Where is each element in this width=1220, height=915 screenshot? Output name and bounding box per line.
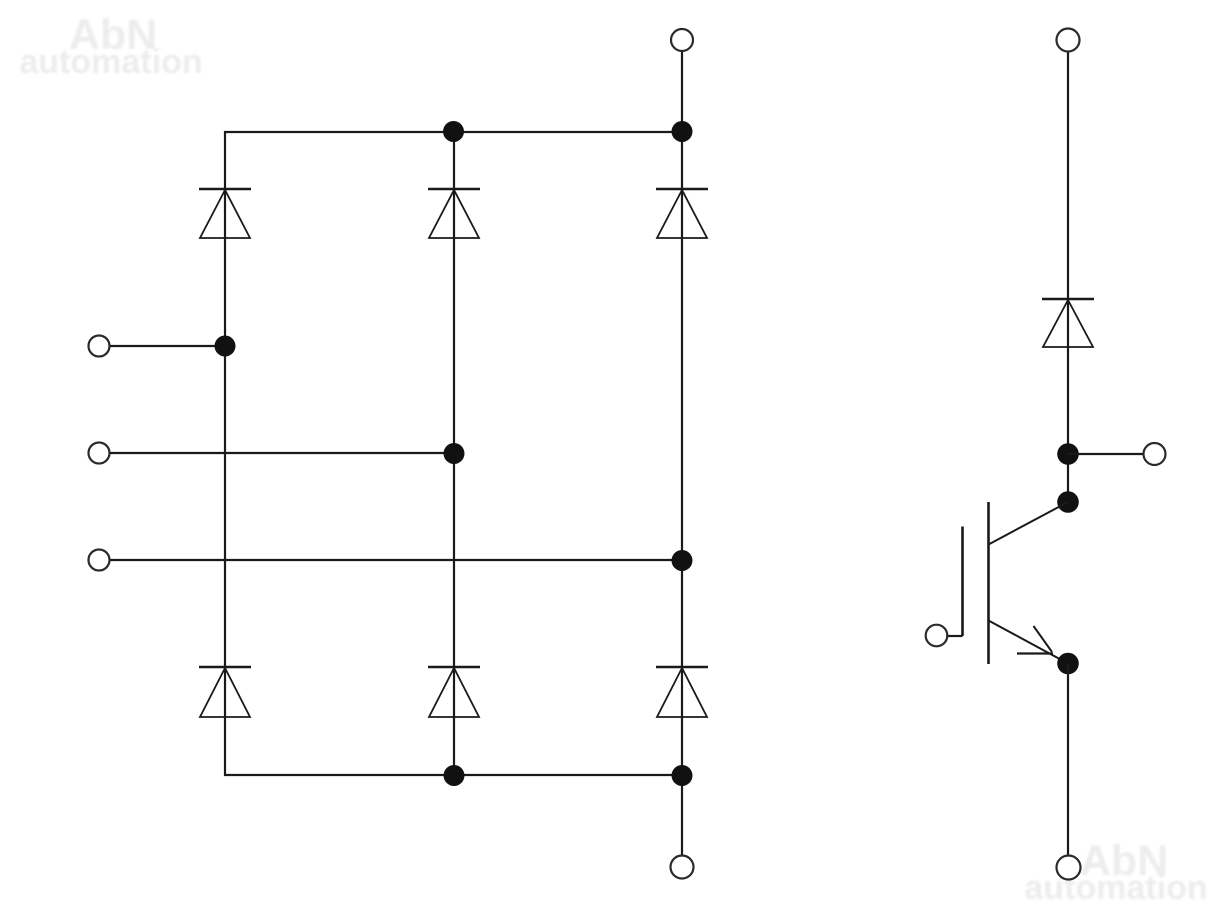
terminal DC+ (top)	[671, 29, 693, 51]
diode D3 (top middle)	[428, 189, 480, 238]
wire input W	[110, 559, 682, 561]
wire left branch vertical	[224, 131, 226, 776]
node junction input U / left branch	[215, 336, 236, 357]
wire input U	[110, 345, 225, 347]
terminal AC input W	[89, 550, 110, 571]
watermark bottom-right "AbN automation"	[1024, 837, 1207, 907]
node junction bottom rail / middle branch	[444, 765, 465, 786]
watermark top-left "AbN automation"	[19, 11, 202, 81]
wire right branch vertical	[681, 51, 683, 856]
transistor Q1 (IGBT) body bar	[987, 502, 990, 664]
diode D6 (bottom middle)	[428, 667, 480, 717]
diode D1 (top left)	[199, 189, 251, 238]
svg-text:automation: automation	[1024, 869, 1207, 907]
node junction input V / middle branch	[444, 443, 465, 464]
node IGBT emitter	[1057, 653, 1079, 675]
diode D7 (chopper series diode)	[1042, 299, 1094, 347]
wire collector lead	[989, 502, 1069, 545]
diode D5 (top right)	[656, 189, 708, 238]
wire chopper column upper	[1067, 52, 1069, 503]
svg-text:automation: automation	[19, 43, 202, 81]
wire chopper column lower	[1067, 664, 1069, 857]
wire middle branch vertical	[453, 132, 455, 775]
wire gate lead	[947, 635, 963, 637]
node junction top rail / middle branch	[443, 121, 464, 142]
wire input V	[110, 452, 454, 454]
terminal gate	[926, 625, 948, 647]
terminal chopper bottom	[1057, 856, 1081, 880]
terminal DC- (bottom)	[671, 856, 694, 879]
wire top DC+ rail	[224, 131, 683, 133]
wire chopper output	[1068, 453, 1143, 455]
node IGBT collector	[1057, 491, 1079, 513]
terminal chopper top	[1057, 29, 1080, 52]
node junction bottom rail / right branch	[672, 765, 693, 786]
diode D2 (bottom right)	[656, 667, 708, 717]
terminal AC input U	[89, 336, 110, 357]
transistor Q1 gate bar	[961, 527, 964, 637]
diode D4 (bottom left)	[199, 667, 251, 717]
terminal AC input V	[89, 443, 110, 464]
node diode anode / output junction	[1057, 443, 1079, 465]
node junction input W / right branch	[672, 550, 693, 571]
wire bottom DC- rail	[224, 774, 683, 776]
wire emitter lead with arrow	[989, 621, 1069, 664]
node junction top rail / right branch	[672, 121, 693, 142]
terminal chopper output	[1144, 443, 1166, 465]
